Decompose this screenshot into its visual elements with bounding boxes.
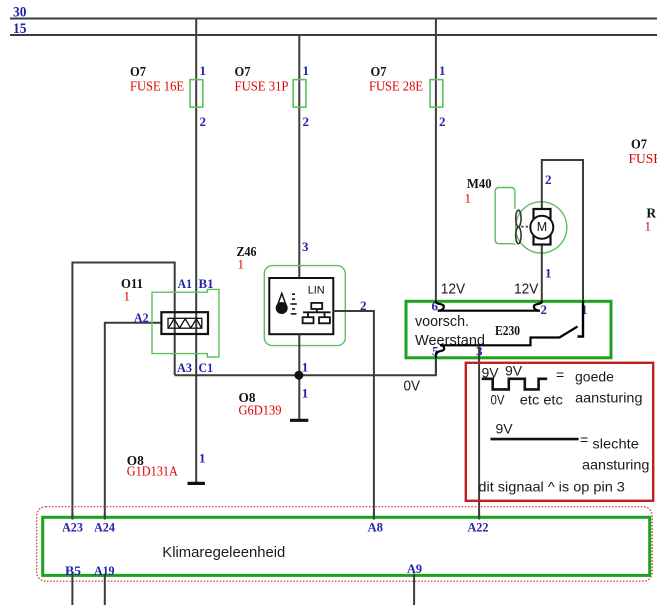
svg-text:1: 1: [302, 360, 309, 375]
wire motor bottom to E230 pin2: [541, 245, 543, 301]
svg-text:FUSE 3: FUSE 3: [629, 151, 657, 166]
wire bus 15: [10, 34, 657, 36]
wire A8 border crossing: [373, 514, 375, 520]
svg-text:M: M: [537, 220, 547, 234]
connector outline Z46: [264, 266, 345, 346]
svg-text:1: 1: [124, 289, 131, 304]
wire A24 border crossing: [104, 514, 106, 520]
wire Z46 pin2 to A8: [333, 311, 374, 517]
fuse O7 FUSE 28E: [430, 80, 443, 108]
wire 0V net (A3 to E230 pin5): [175, 358, 436, 375]
svg-text:1: 1: [645, 219, 652, 234]
motor M40 body: [534, 209, 551, 245]
wire A19 stub: [104, 574, 106, 605]
svg-text:1: 1: [238, 257, 245, 272]
module Z46 body: [269, 278, 333, 334]
fan circle M40: [516, 202, 567, 253]
svg-text:Weerstand: Weerstand: [415, 333, 485, 349]
fan shaft (dashed): [521, 226, 530, 228]
fan shroud M40 (green tab): [495, 188, 515, 246]
svg-text:etc etc: etc etc: [520, 392, 563, 408]
wire E230 pin3 to A22: [478, 346, 480, 517]
relay box E230: [406, 301, 611, 358]
svg-text:FUSE 16E: FUSE 16E: [130, 79, 184, 94]
annotation box (red): [466, 363, 653, 501]
svg-text:A23: A23: [62, 519, 83, 534]
svg-text:2: 2: [200, 114, 207, 129]
svg-text:A3: A3: [177, 360, 192, 375]
svg-text:O7: O7: [235, 64, 251, 79]
svg-text:E230: E230: [495, 323, 520, 338]
svg-text:1: 1: [439, 63, 446, 78]
svg-text:1: 1: [303, 63, 310, 78]
wire A22 border crossing: [478, 514, 480, 520]
svg-text:A2: A2: [134, 310, 149, 325]
wire fuse3 drop (bus30 to E230 pin6): [435, 19, 437, 301]
svg-text:1: 1: [545, 266, 552, 281]
wire A24 run (O11 A2 left/down to A24): [105, 323, 162, 517]
svg-text:goede: goede: [575, 369, 614, 385]
svg-text:M40: M40: [467, 176, 492, 191]
svg-text:2: 2: [541, 302, 548, 317]
wire Z46 pin1 to ground: [298, 334, 300, 419]
icon dashes (Z46): [291, 294, 297, 314]
connector outline O11: [152, 289, 219, 357]
resistor O11 body: [161, 312, 208, 334]
svg-text:O7: O7: [371, 64, 387, 79]
svg-text:G1D131A: G1D131A: [127, 464, 178, 479]
svg-text:A8: A8: [368, 519, 384, 534]
svg-text:aansturing: aansturing: [575, 390, 642, 406]
resistor O11 zigzag: [169, 319, 202, 328]
wire A23 border crossing: [71, 514, 73, 520]
svg-text:1: 1: [302, 386, 309, 401]
svg-text:2: 2: [545, 172, 552, 187]
svg-text:O7: O7: [631, 137, 647, 152]
fuse O7 FUSE 31P: [293, 80, 306, 108]
svg-text:B1: B1: [199, 276, 214, 291]
svg-text:9V: 9V: [505, 363, 523, 379]
junction dot: [294, 371, 303, 380]
switch blade E230: [436, 327, 578, 359]
icon network (Z46): [303, 303, 331, 323]
svg-text:G6D139: G6D139: [239, 403, 282, 418]
control unit box (green): [43, 517, 650, 575]
wire E230 pin1 contact: [578, 301, 584, 337]
fan blades M40: [516, 210, 521, 243]
svg-text:1: 1: [465, 191, 472, 206]
svg-text:12V: 12V: [514, 282, 539, 298]
svg-text:3: 3: [302, 239, 309, 254]
svg-text:voorsch.: voorsch.: [415, 314, 469, 330]
fuse O7 FUSE 16E: [190, 80, 203, 108]
svg-text:C1: C1: [199, 360, 214, 375]
svg-text:A22: A22: [468, 519, 489, 534]
svg-text:FUSE 28E: FUSE 28E: [369, 79, 423, 94]
wire A9 stub: [413, 574, 415, 605]
connector shell (red dotted): [37, 507, 653, 582]
wire B5 stub: [71, 574, 73, 605]
svg-text:=: =: [556, 367, 564, 383]
wire A23 run (O11 A1 up/left/down to A23): [72, 263, 174, 517]
svg-text:0V: 0V: [404, 379, 421, 395]
svg-text:=: =: [580, 432, 588, 448]
svg-text:1: 1: [200, 63, 207, 78]
wire E230 pin5 drop to 0V: [435, 358, 437, 375]
svg-text:dit signaal ^ is op pin 3: dit signaal ^ is op pin 3: [478, 479, 625, 495]
ground G6D139: [290, 419, 308, 422]
svg-text:2: 2: [303, 114, 310, 129]
svg-text:A24: A24: [94, 519, 115, 534]
icon droplet (Z46): [278, 293, 286, 304]
wire E230 internal 6-2: [436, 301, 444, 311]
svg-text:FUSE 31P: FUSE 31P: [235, 79, 289, 94]
svg-text:A1: A1: [178, 276, 193, 291]
svg-text:aansturing: aansturing: [582, 457, 649, 473]
wire fuse2 drop (bus15 to Z46 pin3): [298, 35, 300, 278]
svg-text:slechte: slechte: [592, 436, 639, 452]
svg-text:LIN: LIN: [308, 285, 325, 297]
svg-text:12V: 12V: [441, 282, 466, 298]
svg-text:1: 1: [199, 451, 206, 466]
svg-text:Klimaregeleenheid: Klimaregeleenheid: [162, 545, 285, 561]
svg-text:O7: O7: [130, 64, 146, 79]
wire bus 30: [10, 18, 657, 20]
ground G1D131A: [188, 482, 205, 485]
wire fuse1 drop (bus30 to O11 pin B1/C1 to ground): [195, 19, 197, 483]
svg-text:0V: 0V: [491, 392, 506, 408]
svg-text:9V: 9V: [496, 421, 514, 437]
waveform square: [482, 379, 548, 390]
svg-text:2: 2: [439, 114, 446, 129]
waveform flat: [491, 438, 579, 441]
wire motor top to E230 pin1: [542, 160, 583, 301]
